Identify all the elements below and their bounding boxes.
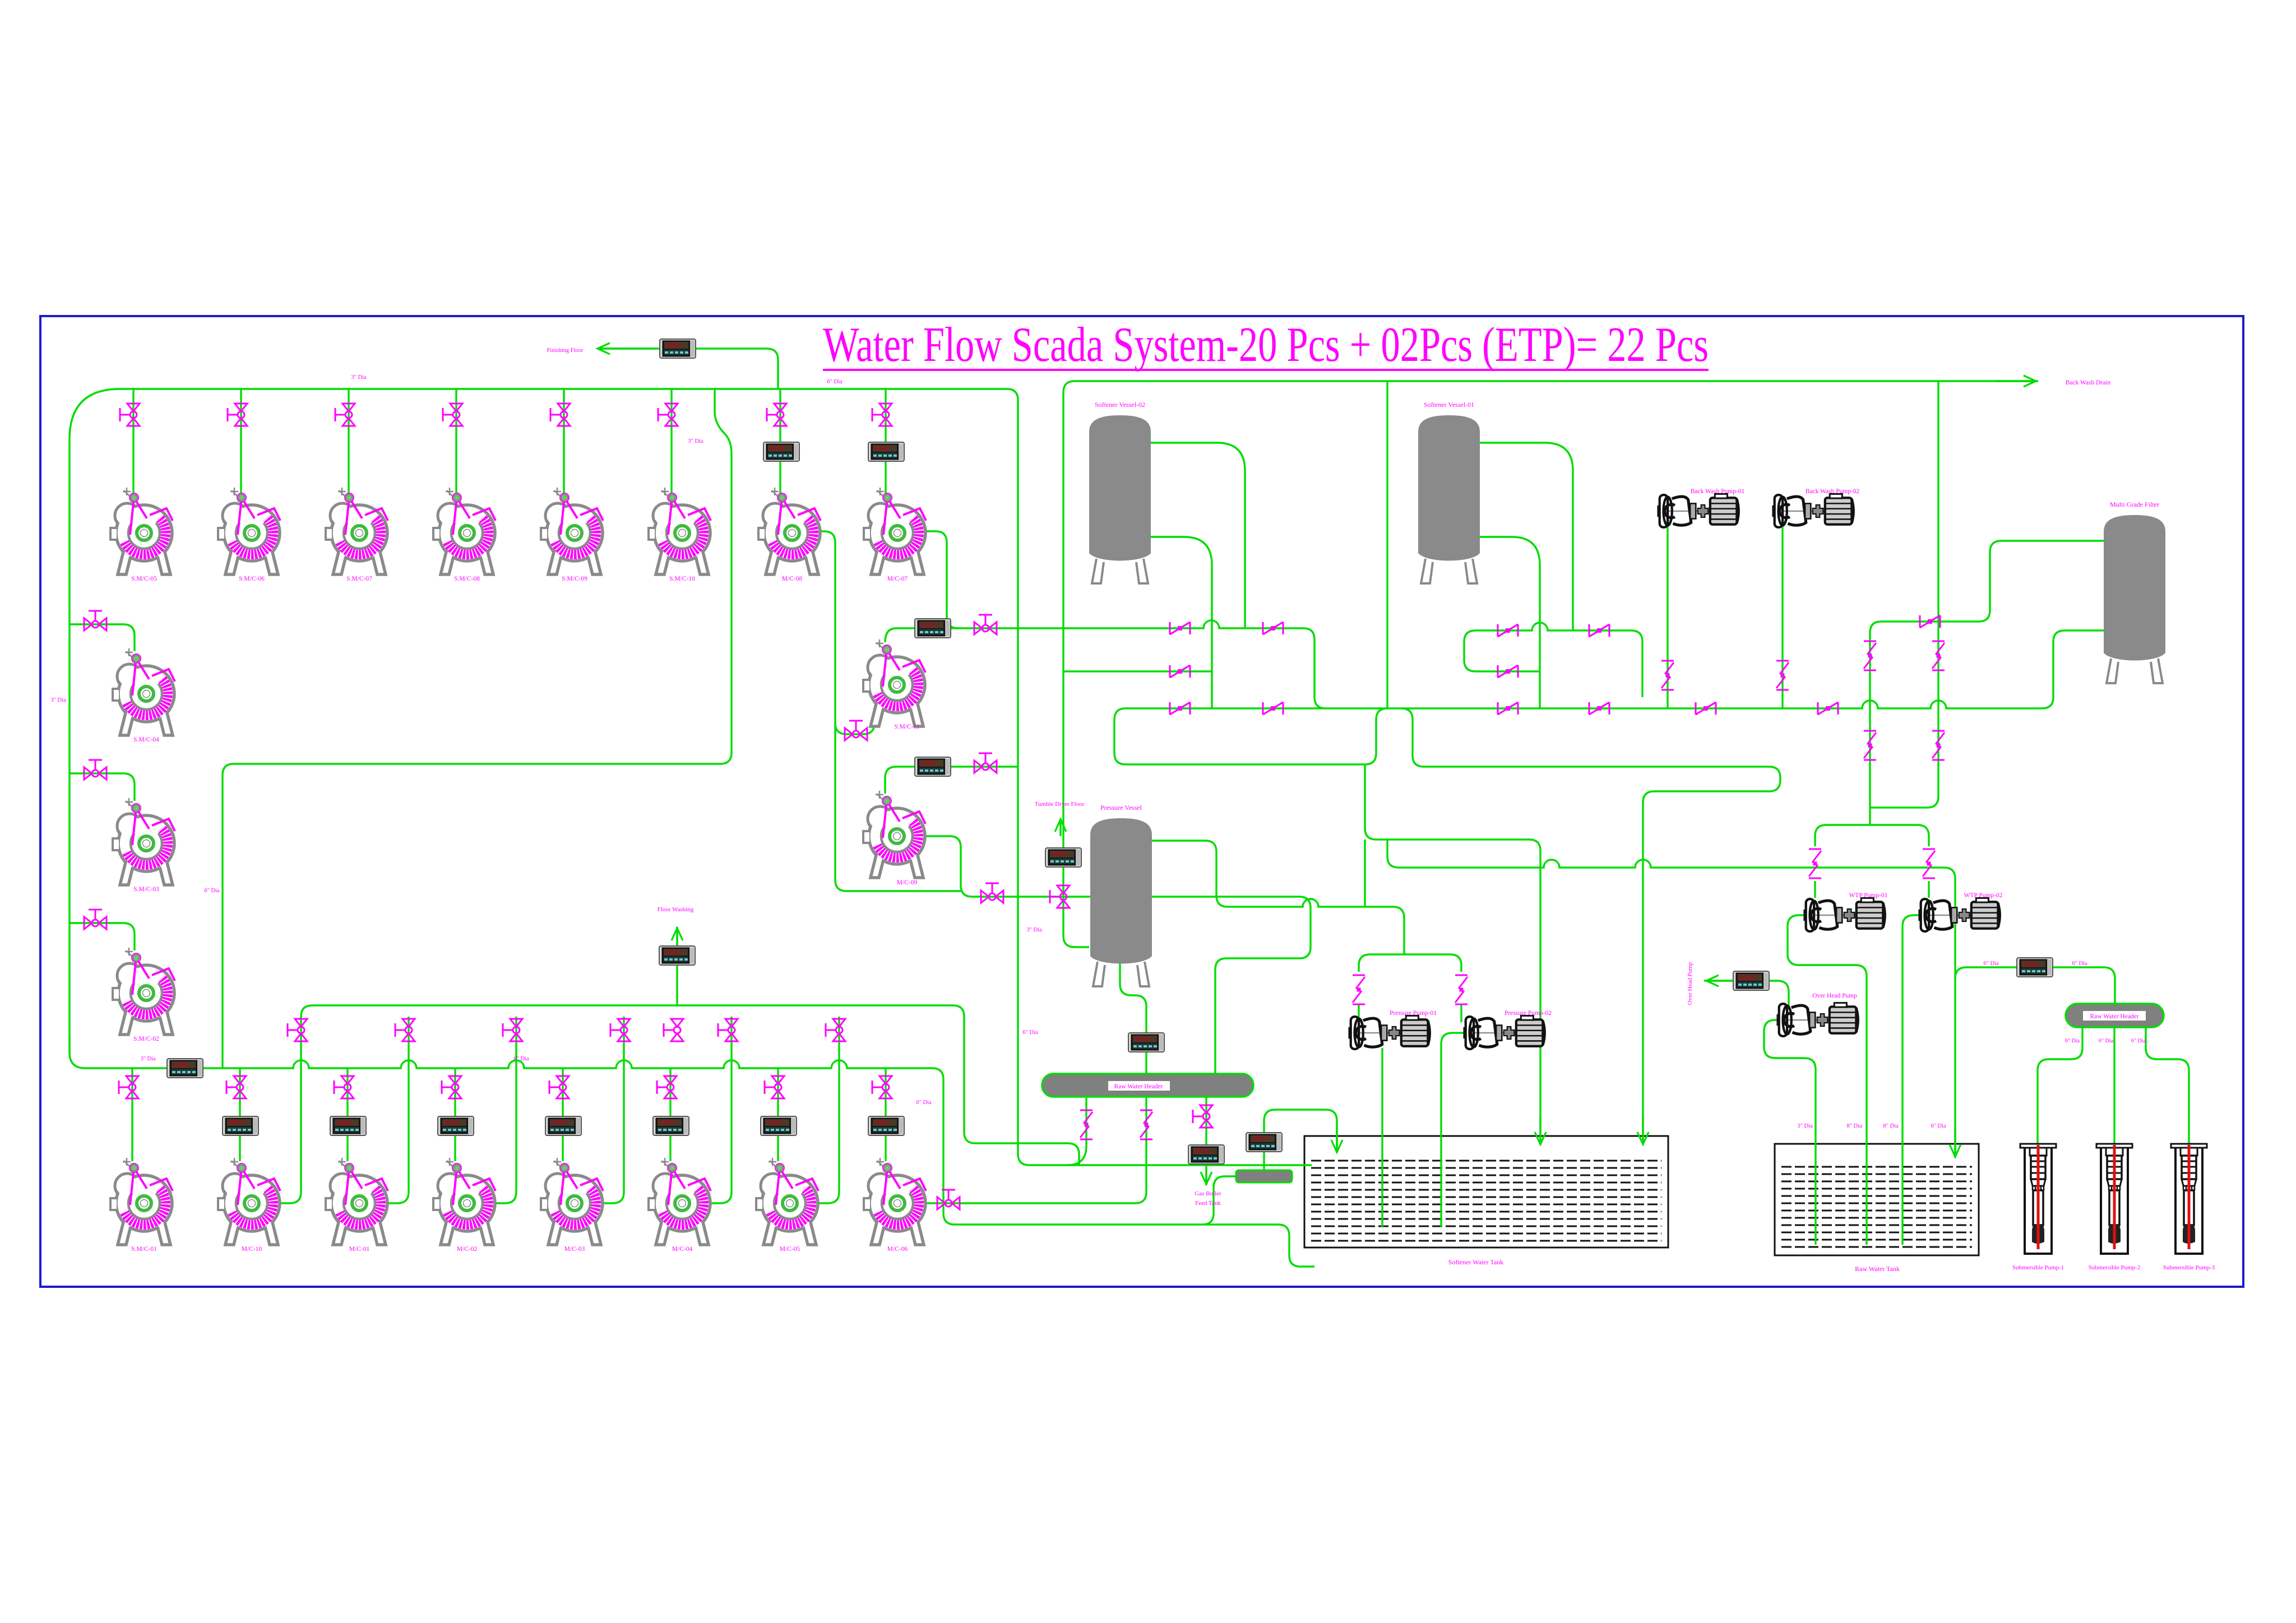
spring check valve at 2424,1766: [1353, 975, 1365, 1004]
wire row4 drop x=1388: [777, 1068, 779, 1161]
svg-text:M/C-05: M/C-05: [780, 1246, 800, 1253]
machine pump M/C-06: [864, 1158, 926, 1253]
svg-text:6" Dia: 6" Dia: [1983, 961, 1999, 967]
svg-text:Multi Grade Filter: Multi Grade Filter: [2110, 500, 2159, 508]
svg-text:8" Dia: 8" Dia: [1846, 1123, 1862, 1129]
check valve at 2105,1198: [1170, 665, 1190, 678]
wire PP1 check stub: [1358, 1004, 1359, 1022]
wire row1 drop x=622: [348, 389, 349, 497]
wire PP2 check stub: [1460, 1004, 1462, 1022]
arrow raw tank feed: [1954, 1126, 1956, 1157]
globe valve (vertical pipe) at 1006,740: [550, 404, 570, 426]
machine pump S.M/C-01: [110, 1158, 173, 1253]
globe valve (vertical pipe) at 1004,1940: [549, 1076, 569, 1098]
spring check valve at 3458,1170: [1932, 641, 1945, 670]
spring check valve at 3336,1330: [1864, 731, 1876, 760]
svg-text:Over Head Pump: Over Head Pump: [1687, 962, 1693, 1005]
wire row1 drop x=430: [240, 389, 242, 497]
motor pump Pressure Pump-02: [1463, 1010, 1552, 1049]
svg-text:M/C-07: M/C-07: [887, 576, 908, 582]
machine pump S.M/C-06: [218, 488, 280, 582]
arrow gas boiler: [1205, 1168, 1207, 1184]
globe valve (vertical pipe) at 1580,740: [872, 404, 892, 426]
check valve at 2690,1198: [1498, 665, 1518, 678]
wire row1 drop x=1198: [670, 389, 672, 497]
svg-text:Back Wash Pump-01: Back Wash Pump-01: [1691, 488, 1745, 495]
check valve at 2105,1121: [1170, 622, 1190, 634]
svg-text:3" Dia: 3" Dia: [1797, 1123, 1813, 1129]
globe valve (vertical pipe) at 1198,740: [658, 404, 678, 426]
flow meter at 2152,2060: [1188, 1145, 1224, 1164]
svg-text:Finishing Floor: Finishing Floor: [547, 347, 584, 354]
svg-text:Back Wash Drain: Back Wash Drain: [2066, 379, 2111, 386]
wire row4 drop x=1580: [885, 1068, 886, 1161]
wire right header feed: [1955, 967, 2115, 1004]
arrow over head pump: [1706, 980, 1732, 981]
wire PP2 suction: [1441, 1033, 1466, 1227]
wire row1 drop x=1006: [563, 389, 564, 497]
wire row4 drop x=812: [454, 1068, 456, 1161]
machine pump M/C-09: [863, 791, 925, 886]
svg-text:Raw Water Header: Raw Water Header: [1114, 1083, 1163, 1090]
wire tumble dryer arrow: [1059, 818, 1061, 836]
machine pump M/C-01: [326, 1158, 388, 1253]
wire PP manifold: [1359, 954, 1461, 972]
svg-text:6" Dia: 6" Dia: [513, 1056, 529, 1062]
svg-text:Softener Vessel-01: Softener Vessel-01: [1424, 401, 1474, 409]
svg-text:Over Head Pump: Over Head Pump: [1812, 993, 1857, 999]
globe valve (vertical pipe) at 1305,1838: [718, 1019, 738, 1041]
globe valve (horizontal pipe) at 1758,1121: [974, 615, 997, 634]
raw water header right: [2066, 1004, 2164, 1027]
flow meter at 3630,1726: [2017, 958, 2053, 977]
check valve at 3261,1264: [1818, 702, 1838, 715]
arrow softener tank feed A: [1539, 1115, 1541, 1144]
wire discharge manifold: [301, 1005, 1079, 1165]
wire row4 riser x=1113: [603, 1017, 624, 1203]
svg-text:S.M/C-02: S.M/C-02: [133, 1036, 159, 1042]
check valve at 2690,1125: [1498, 624, 1518, 637]
flow meter at 330,1906: [167, 1059, 203, 1078]
wire WTP1 suction: [1788, 915, 1867, 1245]
svg-text:S.M/C-11: S.M/C-11: [894, 724, 920, 730]
flow meter at 2045,1860: [1128, 1033, 1164, 1052]
wire MC-08 discharge collector: [816, 531, 961, 891]
flow meter at 1664,1368: [915, 757, 951, 776]
machine pump S.M/C-04: [113, 648, 175, 743]
globe valve (vertical pipe) at 812,1940: [442, 1076, 461, 1098]
globe valve (horizontal pipe) at 1692,2147: [937, 1190, 960, 1209]
machine pump S.M/C-05: [110, 488, 173, 582]
submersible pump Submersible Pump-2: [2089, 1144, 2141, 1271]
svg-text:Floor Washing: Floor Washing: [658, 906, 694, 913]
svg-text:S.M/C-09: S.M/C-09: [562, 576, 587, 582]
svg-text:S.M/C-08: S.M/C-08: [454, 576, 480, 582]
svg-text:Softener Vessel-02: Softener Vessel-02: [1095, 401, 1145, 409]
check valve at 2271,1264: [1263, 702, 1283, 715]
svg-text:S.M/C-10: S.M/C-10: [669, 576, 695, 582]
machine pump M/C-04: [649, 1158, 711, 1253]
svg-text:M/C-08: M/C-08: [782, 576, 803, 582]
globe valve (horizontal pipe) at 1770,1600: [981, 883, 1003, 903]
globe valve (vertical pipe) at 1113,1838: [610, 1019, 630, 1041]
machine pump S.M/C-11: [863, 639, 925, 730]
globe valve (horizontal pipe) at 1758,1368: [974, 753, 997, 773]
svg-text:Submersible Pump-3: Submersible Pump-3: [2163, 1264, 2215, 1271]
wire row1 drop x=814: [455, 389, 457, 497]
globe valve (horizontal pipe) at 170,1380: [84, 760, 107, 780]
flow meter at 2255,2038: [1246, 1133, 1282, 1152]
svg-text:3" Dia: 3" Dia: [140, 1056, 156, 1062]
raw water tank: [1775, 1144, 1979, 1255]
wire MC-06 discharge: [925, 1098, 1146, 1203]
svg-text:Raw Water Tank: Raw Water Tank: [1855, 1265, 1900, 1273]
wire header drain via spring check: [1067, 1098, 1086, 1165]
wire WTP suction manifold: [1815, 825, 1929, 846]
wire row C: [1126, 630, 2104, 708]
arrow softener tank feed C: [1642, 1115, 1644, 1144]
wire WTP2 drop: [1928, 881, 1929, 898]
wire row4 drop x=428: [239, 1068, 240, 1161]
globe valve (vertical pipe) at 430,740: [228, 404, 247, 426]
wire row1 drop x=238: [132, 389, 134, 497]
motor pump Over Head Pump: [1776, 993, 1858, 1036]
wire row4 drop x=620: [346, 1068, 348, 1161]
machine pump S.M/C-02: [113, 948, 175, 1042]
spring check valve at 2983,1205: [1661, 661, 1674, 690]
vessel Softener Vessel-01: [1418, 401, 1480, 583]
flow meter at 1209,622: [660, 339, 696, 358]
flow meter at 1664,1121: [915, 619, 951, 638]
svg-text:M/C-09: M/C-09: [897, 879, 918, 886]
spring check valve at 3168,1205: [1776, 661, 1789, 690]
globe valve (horizontal pipe) at 170,1647: [84, 910, 107, 929]
wire vessel01 low outlet: [1478, 537, 1540, 708]
globe valve (vertical pipe) at 537,1838: [288, 1019, 307, 1041]
wire row4 drop x=236: [131, 1068, 133, 1161]
wire tank feed C: [1401, 708, 1780, 1143]
wire SMC-04 branch: [70, 624, 135, 651]
svg-text:6" Dia: 6" Dia: [916, 1100, 932, 1106]
svg-text:S.M/C-04: S.M/C-04: [133, 736, 159, 743]
globe valve (vertical pipe) at 921,1838: [503, 1019, 522, 1041]
spring check valve at 2607,1766: [1455, 975, 1468, 1004]
flow meter at 1581,2009: [868, 1116, 904, 1135]
globe valve (horizontal pipe) at 1527,1310: [845, 721, 867, 740]
wire OHP discharge: [1704, 981, 1789, 1005]
flow meter at 813,2009: [438, 1116, 474, 1135]
motor pump WTP Pump-02: [1918, 892, 2002, 931]
softener water tank: [1304, 1136, 1668, 1248]
wire PP1 suction: [1381, 1048, 1383, 1227]
wire row4 riser x=1305: [710, 1017, 732, 1203]
wire vessel01 top outlet: [1478, 443, 1573, 630]
svg-text:WTP Pump-01: WTP Pump-01: [1849, 892, 1888, 899]
flow meter at 1581,806: [868, 442, 904, 461]
globe valve (vertical pipe) at 1392,740: [767, 404, 786, 426]
check valve at 2690,1264: [1498, 702, 1518, 715]
globe valve (vertical pipe) at 1897,1600: [1050, 885, 1070, 908]
svg-text:3" Dia: 3" Dia: [351, 374, 367, 381]
svg-text:Gas Boiler: Gas Boiler: [1195, 1190, 1221, 1197]
wire row C loop: [1114, 708, 1387, 764]
svg-text:S.M/C-06: S.M/C-06: [239, 576, 265, 582]
wire finishing floor arrow: [598, 347, 767, 349]
wire bottom main 3in: [70, 1037, 1314, 1267]
wire drain drop 2475: [1386, 381, 1388, 708]
machine pump M/C-03: [541, 1158, 603, 1253]
spring check valve at 3238,1541: [1809, 849, 1821, 878]
wire BWP2 drop: [1781, 526, 1783, 708]
wire row A1 right: [1464, 623, 1642, 697]
wire finishing floor branch: [767, 349, 778, 389]
wire MC-09 discharge: [925, 836, 1311, 1074]
globe valve (vertical pipe) at 1208,1838: [664, 1019, 683, 1041]
wire SMC-02 branch: [70, 923, 135, 950]
wire row4 riser x=537: [280, 1017, 301, 1203]
svg-text:3" Dia: 3" Dia: [688, 438, 703, 444]
wire SMC-11 discharge row A: [885, 620, 1326, 708]
vessel Softener Vessel-02: [1089, 401, 1151, 583]
wire row4 drop x=1004: [562, 1068, 563, 1161]
svg-text:Water Flow Scada System-20 Pcs: Water Flow Scada System-20 Pcs + 02Pcs (…: [823, 318, 1709, 372]
svg-text:M/C-06: M/C-06: [887, 1246, 908, 1253]
wire OHP suction: [1764, 1020, 1816, 1245]
globe valve (vertical pipe) at 236,1940: [119, 1076, 138, 1098]
svg-text:Raw Water Header: Raw Water Header: [2090, 1013, 2139, 1020]
globe valve (vertical pipe) at 428,1940: [226, 1076, 246, 1098]
globe valve (vertical pipe) at 1388,1940: [765, 1076, 784, 1098]
svg-text:M/C-03: M/C-03: [564, 1246, 585, 1253]
motor pump Back Wash Pump-02: [1772, 488, 1859, 527]
spring check valve at 1938,2007: [1080, 1110, 1093, 1139]
flow meter at 1208,1705: [659, 946, 695, 965]
globe valve (vertical pipe) at 814,740: [443, 404, 462, 426]
svg-text:Pressure Pump-02: Pressure Pump-02: [1505, 1010, 1552, 1017]
globe valve (vertical pipe) at 2152,1992: [1193, 1105, 1212, 1128]
wire right header drop1: [2038, 1027, 2082, 1144]
raw water header left: [1042, 1074, 1253, 1097]
svg-text:6" Dia: 6" Dia: [204, 888, 220, 894]
wire WTP2 suction: [1902, 915, 1928, 1245]
flow meter at 1897,1530: [1045, 848, 1081, 867]
globe valve (vertical pipe) at 238,740: [120, 404, 140, 426]
wire row4 drop x=1196: [669, 1068, 671, 1161]
wire row4 riser x=729: [387, 1017, 409, 1203]
svg-text:6" Dia: 6" Dia: [2072, 961, 2087, 967]
wire floor washing arrow: [676, 927, 678, 946]
machine pump S.M/C-10: [649, 488, 711, 582]
svg-text:6" Dia: 6" Dia: [2065, 1038, 2080, 1044]
svg-text:6" Dia: 6" Dia: [1931, 1123, 1946, 1129]
wire WTP1 drop: [1814, 881, 1816, 898]
svg-text:Feed Tank: Feed Tank: [1195, 1200, 1221, 1207]
svg-text:3" Dia: 3" Dia: [50, 697, 66, 703]
svg-text:S.M/C-05: S.M/C-05: [131, 576, 157, 582]
machine pump S.M/C-09: [541, 488, 603, 582]
svg-text:6" Dia: 6" Dia: [2131, 1038, 2146, 1044]
check valve at 3043,1264: [1696, 702, 1716, 715]
machine pump M/C-07: [864, 488, 926, 582]
svg-text:Pressure Pump-01: Pressure Pump-01: [1390, 1010, 1437, 1017]
vessel Multi Grade Filter: [2104, 500, 2165, 683]
wire mini header left feed: [1202, 1176, 1236, 1225]
motor pump Back Wash Pump-01: [1657, 488, 1744, 527]
svg-text:3" Dia: 3" Dia: [1026, 927, 1042, 933]
machine pump M/C-08: [758, 488, 821, 582]
globe valve (vertical pipe) at 622,740: [335, 404, 355, 426]
machine pump S.M/C-08: [433, 488, 496, 582]
flow meter at 1005,2009: [545, 1116, 581, 1135]
svg-text:Tumble Dryer Floor: Tumble Dryer Floor: [1035, 801, 1085, 808]
svg-text:S.M/C-03: S.M/C-03: [133, 886, 159, 893]
wire gas boiler col: [1205, 1097, 1207, 1185]
globe valve (vertical pipe) at 1497,1838: [826, 1019, 845, 1041]
wire header feed from pressure vessel bottom: [1120, 962, 1146, 1074]
submersible pump Submersible Pump-1: [2012, 1144, 2064, 1271]
svg-text:8" Dia: 8" Dia: [1883, 1123, 1899, 1129]
wire drain drop 3458: [1870, 381, 1938, 808]
svg-text:S.M/C-07: S.M/C-07: [346, 576, 372, 582]
wire row B right: [1475, 670, 1540, 672]
svg-text:M/C-10: M/C-10: [242, 1246, 262, 1253]
arrow softener tank feed B2: [1336, 1126, 1337, 1152]
wire vessel02 top outlet: [1150, 443, 1245, 628]
check valve at 2271,1121: [1263, 622, 1283, 634]
wire right header drop2: [2113, 1027, 2115, 1144]
motor pump Pressure Pump-01: [1348, 1010, 1437, 1049]
machine pump M/C-05: [756, 1158, 818, 1253]
flow meter at 1394,806: [763, 442, 799, 461]
wire MC-09 inlet row: [885, 767, 1018, 794]
wire PV outlet chain: [1151, 841, 1404, 954]
globe valve (vertical pipe) at 1196,1940: [657, 1076, 677, 1098]
svg-text:6" Dia: 6" Dia: [827, 379, 843, 385]
svg-text:M/C-01: M/C-01: [349, 1246, 370, 1253]
flow meter at 621,2009: [330, 1116, 366, 1135]
svg-text:M/C-04: M/C-04: [672, 1246, 693, 1253]
svg-text:S.M/C-01: S.M/C-01: [131, 1246, 157, 1253]
check valve at 2853,1264: [1589, 702, 1609, 715]
globe valve (horizontal pipe) at 170,1114: [84, 611, 107, 630]
arrow tumble dryer: [1059, 819, 1061, 835]
wire SMC-11 feed valve branch: [835, 711, 874, 734]
svg-text:M/C-02: M/C-02: [457, 1246, 478, 1253]
svg-text:Submersible Pump-1: Submersible Pump-1: [2012, 1264, 2064, 1271]
globe valve (vertical pipe) at 620,1940: [334, 1076, 354, 1098]
wire MC-07 discharge: [925, 531, 958, 628]
check valve at 2853,1125: [1589, 624, 1609, 637]
wire row1 drop x=1392: [779, 389, 781, 497]
svg-text:6" Dia: 6" Dia: [1022, 1030, 1038, 1036]
flow meter at 1197,2009: [653, 1116, 689, 1135]
arrow to finishing floor: [598, 347, 657, 349]
machine pump M/C-02: [433, 1158, 496, 1253]
spring check valve at 3441,1535: [1923, 849, 1935, 878]
machine pump M/C-10: [218, 1158, 280, 1253]
wire row B left: [1063, 670, 1212, 672]
vessel Pressure Vessel: [1090, 804, 1152, 986]
blue drawing frame: [40, 316, 2243, 1287]
arrow back wash drain: [1996, 380, 2036, 382]
svg-text:Back Wash Pump-02: Back Wash Pump-02: [1806, 488, 1860, 495]
wire right header drop3: [2146, 1027, 2189, 1144]
flow meter at 429,2009: [223, 1116, 258, 1135]
wire main 3in left trunk: [70, 389, 1312, 1165]
svg-text:WTP Pump-02: WTP Pump-02: [1964, 892, 2003, 899]
svg-text:Softener Water Tank: Softener Water Tank: [1448, 1258, 1503, 1266]
wire tumble dryer riser: [1063, 381, 2038, 947]
check valve at 2105,1264: [1170, 702, 1190, 715]
submersible pump Submersible Pump-3: [2163, 1144, 2215, 1271]
machine pump S.M/C-03: [113, 798, 175, 893]
check valve at 3443,1109: [1920, 615, 1940, 628]
svg-text:Pressure Vessel: Pressure Vessel: [1100, 804, 1142, 811]
flow meter at 1389,2009: [761, 1116, 797, 1135]
svg-text:6" Dia: 6" Dia: [2099, 1038, 2114, 1044]
wire tank feed A: [1365, 764, 1540, 1143]
arrow floor washing: [676, 928, 678, 945]
flow meter at 3124,1750: [1733, 971, 1769, 990]
wire MGF upper line: [1870, 541, 2104, 825]
wire row4 riser x=921: [495, 1017, 516, 1203]
wire tank feed B: [1387, 840, 1955, 1158]
wire vessel02 low outlet: [1150, 537, 1212, 708]
wire 6in riser left: [223, 389, 732, 1068]
machine pump S.M/C-07: [326, 488, 388, 582]
motor pump WTP Pump-01: [1803, 892, 1887, 931]
spring check valve at 3458,1330: [1932, 731, 1945, 760]
svg-text:Submersible Pump-2: Submersible Pump-2: [2089, 1264, 2141, 1271]
globe valve (vertical pipe) at 1580,1940: [872, 1076, 892, 1098]
spring check valve at 2045,2007: [1140, 1110, 1152, 1139]
wire row1 drop x=1580: [885, 389, 886, 497]
wire row4 riser x=1497: [818, 1017, 839, 1203]
wire pressure pump feed drop: [1364, 840, 1365, 907]
globe valve (vertical pipe) at 729,1838: [395, 1019, 415, 1041]
wire SMC-03 branch: [70, 773, 135, 801]
wire BWP1 drop: [1667, 526, 1668, 708]
spring check valve at 3336,1170: [1864, 641, 1876, 670]
gas boiler mini header: [1236, 1170, 1292, 1183]
wire mini header col: [1264, 1110, 1337, 1170]
wire floor washing stub: [676, 965, 678, 1005]
